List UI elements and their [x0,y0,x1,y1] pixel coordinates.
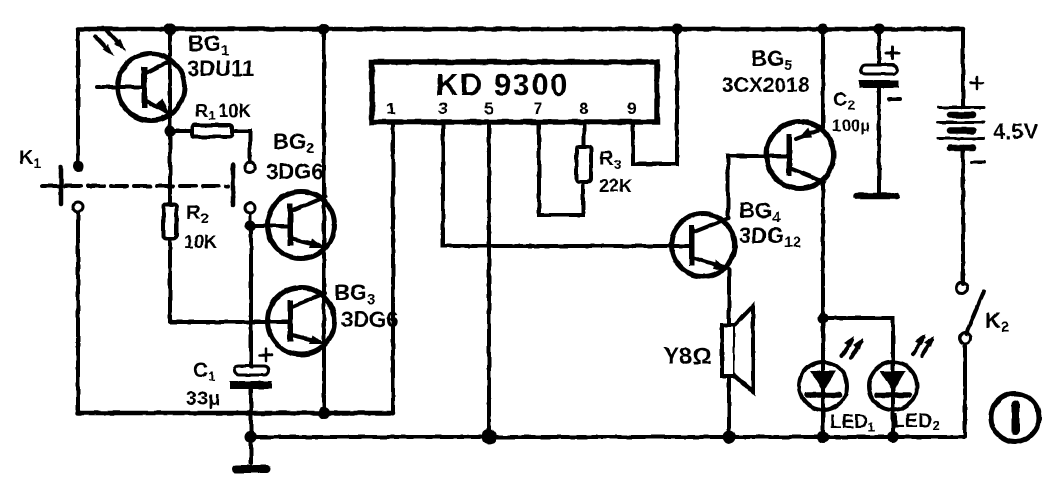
node BG1 emitter / R1 / R2 junction [165,126,176,137]
light arrows LED2 [913,334,934,356]
capacitor C1 [230,349,272,389]
transistor BG3 [268,288,335,355]
node C1-ground junction [245,431,257,443]
wire pin8 stub [582,122,586,147]
wire contact to base node [249,213,252,231]
label R3 22K [599,148,632,196]
switch K1 upper-left contact dot [73,161,84,172]
svg-text:10K: 10K [184,232,217,252]
wire speaker to ground rail [727,376,731,437]
switch K1 linkage dashed line [42,184,228,188]
label BG2 [266,129,323,184]
svg-text:3DG6: 3DG6 [341,307,398,332]
node LED1 ground junction [817,431,829,443]
wire ground rail B [251,435,964,439]
label C2 100u [832,89,870,135]
LED LED1 [799,362,847,410]
svg-text:3DG6: 3DG6 [266,159,323,184]
node BG1 top rail junction [164,23,176,35]
wire BG4 emitter to speaker [727,269,731,325]
wire LED2 branch [823,318,893,362]
node BG5 top rail junction [818,24,829,35]
switch K1 lower-right contact [245,203,255,213]
switch K1 lower-left contact [73,202,83,212]
node LED2 ground junction [887,431,899,443]
svg-text:8: 8 [579,99,588,118]
battery B1 4.5V [938,29,984,284]
svg-text:33μ: 33μ [186,388,220,410]
wire top supply rail [78,27,963,32]
wire LED1 drop [821,318,825,437]
svg-text:1: 1 [386,99,395,118]
svg-text:22K: 22K [599,176,632,196]
transistor BG4 [672,214,735,277]
wire pin7 loop [539,122,583,215]
node LED branch junction [818,313,829,324]
switch K2 [957,283,985,438]
svg-text:5: 5 [484,99,493,118]
wire pin9 to top rail [633,29,677,164]
label BG3 [334,280,398,332]
wire left edge lower [76,213,80,413]
transistor BG5 [767,122,834,189]
label R2 10K [184,202,217,252]
switch K1 left bar [59,167,64,204]
wire pin1 riser [391,122,395,413]
svg-text:9: 9 [627,99,636,118]
svg-text:3: 3 [438,99,447,118]
speaker Y 8ohm [722,306,753,392]
value label C1 [186,359,220,410]
wire BG5 emitter riser [821,29,825,129]
wire BG4 collector to BG5 base [728,156,789,218]
wire BG2/BG3 chain riser [322,29,326,413]
light arrows LED1 [842,336,863,358]
node speaker ground junction [723,431,736,444]
label BG1 [187,31,254,81]
node pin5 ground junction [482,430,497,445]
wire LED2 drop [891,362,895,437]
node BG3 emitter bottom junction [318,407,330,419]
wire pin5 to ground rail [487,122,491,437]
wire bottom rail A [78,411,393,416]
label BG4 [739,198,801,251]
svg-text:7: 7 [533,99,542,118]
wire BG1 collector-emitter riser [168,29,172,131]
svg-text:100μ: 100μ [832,116,870,135]
resistor R2 [164,131,177,322]
wire left edge upper [76,29,80,165]
wire C1 top stem [249,231,253,367]
wire pin3 to BG4 base [443,122,691,246]
svg-text:Y8Ω: Y8Ω [663,343,712,370]
transistor BG1 (photo) [97,54,185,121]
svg-text:3DU11: 3DU11 [187,56,254,81]
wire BG3 base [170,320,290,324]
resistor R1 [170,125,250,162]
capacitor C2 [857,24,900,197]
figure number badge I [991,394,1039,442]
wire BG2 base [250,224,290,228]
ground [236,465,267,473]
light arrows into BG1 [95,31,126,56]
LED LED2 [869,362,917,410]
switch K1 upper-right contact [245,162,255,172]
node pin9 top rail junction [672,24,683,35]
node BG2 base junction [245,221,256,232]
node chain top junction [319,24,330,35]
svg-text:3CX2018: 3CX2018 [722,74,810,97]
svg-text:KD 9300: KD 9300 [436,67,569,102]
svg-text:R110K: R110K [195,101,251,123]
wire ground stem [249,390,253,463]
switch K1 right bar [231,165,236,205]
IC U1 KD9300 [372,62,657,122]
svg-text:4.5V: 4.5V [993,119,1039,144]
wire BG5 collector drop [821,182,825,318]
resistor R3 [577,147,592,182]
transistor BG2 [268,192,335,259]
label BG5 [722,46,810,97]
